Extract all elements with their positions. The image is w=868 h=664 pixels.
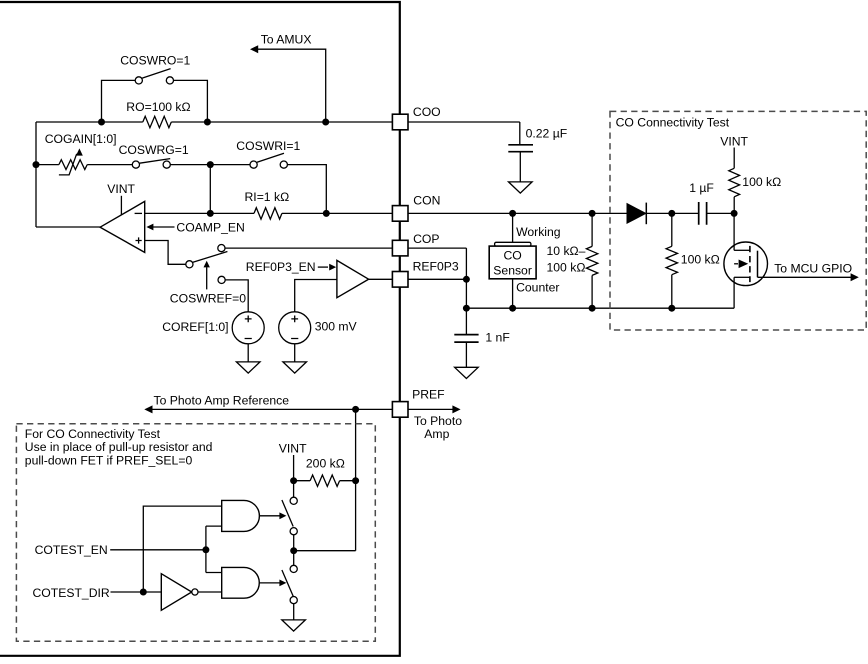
To AMUX arrow	[250, 45, 326, 122]
switch S2 bottom contact	[290, 597, 297, 604]
switch COSWREF blade	[193, 252, 228, 263]
svg-text:To MCU GPIO: To MCU GPIO	[774, 262, 852, 276]
label COTEST_DIR	[33, 586, 110, 600]
junction COP-node	[463, 305, 470, 312]
svg-text:CO: CO	[503, 248, 521, 262]
op-amp plus input sign	[136, 237, 142, 243]
label COREF[1:0]	[162, 320, 228, 334]
label RI=1 k&#937;	[245, 190, 290, 204]
AND gate A1	[222, 500, 260, 531]
svg-text:Working: Working	[516, 225, 560, 239]
svg-text:CO Connectivity Test: CO Connectivity Test	[616, 116, 730, 130]
label COO	[413, 105, 441, 119]
switch COSWRG	[132, 159, 170, 169]
wire 300mV source to buffer	[295, 280, 337, 312]
junction Rsense-node	[589, 305, 596, 312]
label To AMUX	[261, 33, 312, 47]
resistor 100 kOhm pull-down	[666, 246, 677, 274]
wire center node to PREF vertical	[294, 550, 356, 552]
junction CON-Rsense	[589, 210, 596, 217]
ground (0.22 uF)	[509, 182, 533, 193]
resistor RO	[143, 116, 172, 127]
svg-text:300 mV: 300 mV	[315, 320, 358, 334]
pin COO	[392, 114, 408, 130]
label REF0P3	[413, 260, 459, 274]
CO Connectivity Test box (dashed)	[610, 111, 866, 330]
capacitor 1 nF	[454, 335, 478, 343]
junction PREF-test network	[352, 406, 359, 413]
junction sensor-node	[509, 305, 516, 312]
op-amp minus input sign	[135, 212, 142, 214]
svg-text:200 kΩ: 200 kΩ	[306, 457, 345, 471]
label CON	[413, 194, 440, 208]
junction VINT-200k	[290, 477, 297, 484]
wire non-inverting input	[145, 241, 186, 265]
source COREF[1:0]	[232, 312, 264, 344]
wire 100k pulldown branch	[671, 213, 673, 246]
pin PREF	[392, 402, 408, 418]
wire 100k pulldown to node	[671, 275, 673, 309]
switch COSWRO	[135, 69, 173, 84]
label VINT (op-amp supply)	[107, 182, 135, 196]
switch S1 blade	[282, 500, 293, 527]
wire sense resistor to node	[591, 275, 593, 308]
wire VINT to switch S1	[293, 455, 295, 497]
svg-text:COAMP_EN: COAMP_EN	[176, 221, 244, 235]
svg-text:To Photo: To Photo	[414, 414, 462, 428]
junction drain node	[731, 210, 738, 217]
CO Sensor box	[489, 242, 536, 279]
svg-text:COREF[1:0]: COREF[1:0]	[162, 320, 228, 334]
label VINT (test network)	[279, 442, 307, 456]
svg-text:COP: COP	[413, 232, 439, 246]
wire 300mV source to ground	[294, 344, 296, 362]
wire PREF to photo amp	[408, 405, 461, 413]
wire COGAIN to inverting input	[209, 165, 211, 214]
wire lower contact to COREF source	[225, 280, 248, 312]
resistor 10k-100k sense	[586, 246, 597, 275]
svg-text:VINT: VINT	[720, 134, 748, 148]
wire VINT to 100k pullup	[733, 148, 735, 169]
wire capacitor to ground	[519, 152, 521, 182]
junction pulldown-node	[668, 305, 675, 312]
buffer amp REF0P3	[337, 260, 369, 297]
label COAMP_EN	[176, 221, 244, 235]
wire sensor counter electrode to node	[512, 279, 514, 308]
REF0P3_EN enable arrow	[318, 264, 336, 271]
junction COGAIN-RI	[207, 161, 214, 168]
chip boundary (device edge)	[0, 2, 400, 656]
svg-text:To AMUX: To AMUX	[261, 33, 312, 47]
wire COP line	[225, 247, 466, 249]
wire op-amp output	[36, 226, 100, 228]
wire diode to 1uF	[646, 212, 698, 214]
wire COTEST_EN	[110, 549, 206, 551]
svg-text:CON: CON	[413, 194, 440, 208]
transistor Q1 (MOSFET)	[724, 242, 768, 286]
label 100 kOhm (sense)	[547, 261, 586, 275]
label COSWRG=1	[119, 143, 189, 157]
label VINT (connectivity test)	[720, 134, 748, 148]
wire COREF source to ground	[247, 344, 249, 362]
svg-text:RI=1 kΩ: RI=1 kΩ	[245, 190, 290, 204]
ground (COREF source)	[236, 362, 260, 373]
label To MCU GPIO	[774, 262, 852, 276]
junction switch center node	[290, 547, 297, 554]
source 300 mV	[279, 312, 311, 344]
svg-text:100 kΩ: 100 kΩ	[742, 175, 781, 189]
svg-text:Use in place of pull-up resist: Use in place of pull-up resistor and	[25, 440, 213, 454]
label COSWRI=1	[236, 139, 300, 153]
svg-text:COTEST_DIR: COTEST_DIR	[33, 586, 110, 600]
resistor RI	[254, 208, 282, 219]
pin COP	[392, 240, 408, 256]
wire COO to capacitor	[519, 122, 521, 144]
svg-text:COSWRG=1: COSWRG=1	[119, 143, 189, 157]
svg-text:Amp: Amp	[424, 427, 449, 441]
label For CO Connectivity Test	[25, 427, 161, 441]
wire PREF down to test network	[355, 409, 357, 550]
switch S2 blade	[282, 570, 293, 596]
label RO=100 k&#937;	[126, 100, 190, 114]
op-amp U1 (CO amp)	[100, 201, 145, 252]
label 0.22 uF	[526, 127, 568, 141]
switch COSWREF upper contact	[218, 245, 225, 252]
junction COTEST_EN	[202, 546, 209, 553]
variable resistor COGAIN	[59, 148, 87, 175]
svg-text:RO=100 kΩ: RO=100 kΩ	[126, 100, 190, 114]
label 100 kOhm (pull-down)	[681, 252, 720, 266]
AND gate A2	[222, 567, 260, 598]
label 200 kOhm	[306, 457, 345, 471]
label COTEST_EN	[35, 543, 108, 557]
wire COTEST_DIR	[111, 591, 162, 593]
wire S2 to ground	[293, 604, 295, 620]
junction COO-AMUX	[322, 119, 329, 126]
wire inverter to A2	[198, 591, 222, 593]
wire COTEST_EN to A1/A2 inputs	[206, 526, 222, 572]
label pull-down FET if PREF_SEL=0	[25, 454, 193, 468]
svg-text:COSWRO=1: COSWRO=1	[120, 53, 190, 67]
svg-text:COSWREF=0: COSWREF=0	[170, 291, 246, 305]
label To Photo	[414, 414, 462, 428]
label Working	[516, 225, 560, 239]
junction COO-loop-left	[98, 119, 105, 126]
wire CON to sensor working electrode	[512, 213, 514, 242]
label COSWREF=0	[170, 291, 246, 305]
wire RO bypass loop	[102, 80, 208, 122]
svg-text:VINT: VINT	[279, 442, 307, 456]
inverter U2	[161, 574, 198, 611]
wire MOSFET source to node	[733, 277, 735, 308]
svg-text:For CO Connectivity Test: For CO Connectivity Test	[25, 427, 161, 441]
wire COGAIN row	[36, 165, 326, 214]
label COGAIN[1:0]	[45, 132, 117, 146]
A2 output arrow to S2	[260, 580, 287, 587]
svg-text:COTEST_EN: COTEST_EN	[35, 543, 108, 557]
switch S2 top contact	[290, 565, 297, 572]
capacitor 1 uF	[699, 202, 707, 225]
wire op-amp feedback left vertical	[35, 122, 37, 227]
junction diode-R100k	[668, 210, 675, 217]
switch S1 bottom contact	[290, 528, 297, 535]
svg-text:COO: COO	[413, 105, 441, 119]
For CO Connectivity Test box (dashed)	[16, 424, 375, 642]
junction RI-COGAIN	[207, 210, 214, 217]
ground (300 mV source)	[283, 362, 307, 373]
wire 200k right stub	[340, 480, 356, 482]
wire COO main line	[36, 121, 520, 123]
junction COO-loop-right	[204, 119, 211, 126]
svg-text:PREF: PREF	[412, 388, 445, 402]
ground (1 nF)	[455, 367, 479, 378]
junction COP-REF0P3	[463, 276, 470, 283]
switch S1 top contact	[290, 497, 297, 504]
switch COSWRI	[250, 153, 287, 168]
svg-text:COSWRI=1: COSWRI=1	[236, 139, 300, 153]
wire drain node to MOSFET	[733, 213, 735, 250]
wire 1nF to ground	[465, 342, 467, 367]
COSWREF control arrow	[204, 261, 210, 290]
capacitor 0.22 uF	[508, 145, 533, 152]
resistor 200 kOhm	[310, 475, 340, 486]
label COP	[413, 232, 439, 246]
svg-text:VINT: VINT	[107, 182, 135, 196]
label Amp	[424, 427, 449, 441]
wire COTEST_DIR to A1 upper input	[143, 506, 221, 592]
label COSWRO=1	[120, 53, 190, 67]
svg-text:REF0P3: REF0P3	[413, 260, 459, 274]
wire PREF to photo amp reference	[144, 405, 392, 413]
wire COP/REF0P3 junction vertical	[465, 248, 467, 334]
wire VINT to op-amp	[120, 196, 122, 215]
resistor 100 kOhm pull-up	[729, 168, 740, 197]
COAMP_EN enable arrow	[146, 224, 174, 231]
label 1 nF	[485, 330, 509, 344]
label 1 uF	[689, 181, 714, 195]
label Use in place of pull-up resistor and	[25, 440, 213, 454]
svg-text:To Photo Amp Reference: To Photo Amp Reference	[154, 393, 290, 407]
wire inverting input / CON line	[145, 212, 627, 214]
label Sensor	[493, 263, 532, 277]
switch COSWREF common contact	[186, 261, 193, 268]
pin CON	[392, 206, 408, 222]
wire 200k left stub	[294, 480, 311, 482]
wire gate to MCU GPIO	[758, 273, 859, 281]
svg-text:100 kΩ: 100 kΩ	[681, 252, 720, 266]
wire 1uF to drain node	[707, 212, 735, 214]
label 100 kOhm (pull-up)	[742, 175, 781, 189]
label CO Connectivity Test	[616, 116, 730, 130]
label 10 kOhm-	[547, 244, 586, 258]
junction RI-COSWRI	[323, 210, 330, 217]
svg-text:Counter: Counter	[516, 280, 559, 294]
junction feedback-COGAIN	[33, 161, 40, 168]
svg-text:1 µF: 1 µF	[689, 181, 714, 195]
wire 100k pullup to drain node	[733, 197, 735, 214]
label PREF	[412, 388, 445, 402]
svg-text:COGAIN[1:0]: COGAIN[1:0]	[45, 132, 117, 146]
svg-text:10 kΩ–: 10 kΩ–	[547, 244, 586, 258]
svg-text:REF0P3_EN: REF0P3_EN	[246, 260, 316, 274]
label Counter	[516, 280, 559, 294]
pin REF0P3	[392, 272, 408, 288]
switch COSWREF lower contact	[218, 276, 225, 283]
junction 200k-PREF vertical	[352, 477, 359, 484]
wire bottom node line	[466, 307, 734, 309]
junction COTEST_DIR	[140, 589, 147, 596]
label 300 mV	[315, 320, 358, 334]
diode D1	[627, 203, 646, 225]
wire CON to sense resistor	[591, 213, 593, 246]
svg-text:0.22 µF: 0.22 µF	[526, 127, 568, 141]
svg-text:Sensor: Sensor	[493, 263, 532, 277]
svg-text:pull-down FET if PREF_SEL=0: pull-down FET if PREF_SEL=0	[25, 454, 193, 468]
wire buffer output / REF0P3 line	[369, 278, 467, 280]
label CO (sensor)	[503, 248, 521, 262]
svg-text:1 nF: 1 nF	[485, 330, 509, 344]
label To Photo Amp Reference	[154, 393, 290, 407]
A1 output arrow to S1	[260, 512, 287, 519]
label REF0P3_EN	[246, 260, 316, 274]
svg-text:100 kΩ: 100 kΩ	[547, 261, 586, 275]
ground (test network)	[282, 620, 306, 631]
wire S1 to center junction	[293, 535, 295, 565]
junction CON-sensor	[509, 210, 516, 217]
